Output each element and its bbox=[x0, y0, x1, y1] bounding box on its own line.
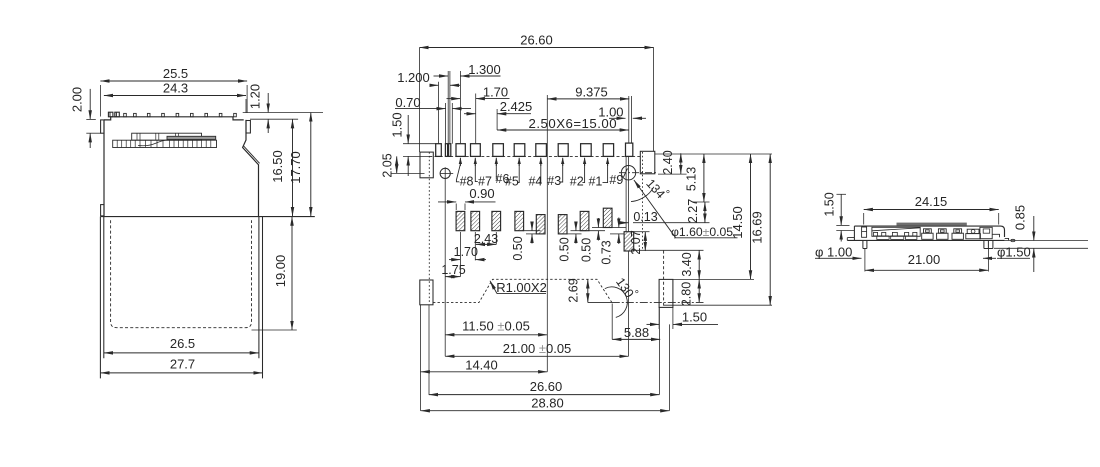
shell tab bottom-right bbox=[659, 279, 673, 307]
pin label #5 bbox=[518, 158, 520, 166]
pin row dashed line bbox=[429, 155, 642, 157]
svg-text:17.70: 17.70 bbox=[288, 151, 303, 184]
svg-text:14.40: 14.40 bbox=[465, 358, 498, 373]
svg-text:1.200: 1.200 bbox=[397, 70, 430, 85]
left contact block bbox=[872, 227, 920, 236]
svg-text:11.50 ±0.05: 11.50 ±0.05 bbox=[462, 319, 530, 334]
svg-text:2.69: 2.69 bbox=[567, 278, 581, 302]
card edge protruding bbox=[897, 223, 967, 226]
svg-text:1.50: 1.50 bbox=[682, 310, 707, 325]
dim 1.70 bbox=[447, 98, 461, 100]
left mounting tab lower bbox=[101, 205, 104, 216]
left leg bbox=[863, 240, 867, 248]
svg-text:#4: #4 bbox=[528, 174, 542, 188]
svg-text:°: ° bbox=[666, 189, 670, 201]
left view: connector with card, side elevation bbox=[70, 66, 324, 378]
svg-text:#9: #9 bbox=[609, 173, 623, 187]
dim 17.70 bbox=[310, 113, 312, 217]
svg-text:1.70: 1.70 bbox=[483, 85, 508, 100]
svg-text:0.90: 0.90 bbox=[469, 186, 494, 201]
svg-text:1.70: 1.70 bbox=[454, 245, 478, 259]
left mounting tab upper bbox=[101, 120, 104, 133]
svg-text:2.07: 2.07 bbox=[629, 230, 643, 254]
left hook detail bbox=[862, 227, 867, 237]
dim 2.27 bbox=[704, 202, 706, 223]
dim 24.3 bbox=[104, 95, 246, 97]
svg-text:24.3: 24.3 bbox=[163, 80, 188, 95]
dim 2.40 bbox=[680, 153, 682, 174]
dim 1.20 bbox=[267, 93, 269, 113]
dim 2.69 bbox=[587, 279, 589, 302]
shell tab bottom-left bbox=[420, 280, 433, 305]
svg-text:1.20: 1.20 bbox=[248, 84, 263, 109]
dim 5.88 bbox=[612, 338, 660, 340]
dim 0.50 a bbox=[524, 230, 541, 232]
svg-text:25.5: 25.5 bbox=[163, 66, 188, 81]
dim 1.70 pads bbox=[449, 259, 460, 261]
shell left end bbox=[853, 226, 855, 240]
middle contacts bbox=[922, 229, 981, 240]
svg-text:21.00 ±0.05: 21.00 ±0.05 bbox=[503, 341, 572, 356]
dim 1.300 bbox=[434, 75, 449, 77]
dim 2.05 bbox=[396, 156, 398, 173]
svg-text:24.15: 24.15 bbox=[915, 194, 948, 209]
svg-text:0.13: 0.13 bbox=[633, 210, 657, 224]
svg-text:5.13: 5.13 bbox=[685, 167, 699, 191]
dim phi 1.60 leader bbox=[634, 180, 676, 238]
dim 14.50 bbox=[750, 154, 752, 279]
dim 2.50X6=15.00 bbox=[497, 129, 629, 131]
bottom extension lines bbox=[419, 305, 421, 411]
dim 1.50 left bbox=[837, 193, 847, 195]
svg-text:0.73: 0.73 bbox=[600, 240, 614, 264]
dim 0.50 c bbox=[589, 230, 605, 232]
dim 2.80 bbox=[698, 279, 700, 302]
dim 2.00 bbox=[89, 89, 91, 120]
dim 16.69 bbox=[769, 154, 771, 305]
shell hidden edge right dotted bbox=[642, 152, 644, 250]
pin label #2 bbox=[584, 158, 586, 166]
svg-text:27.7: 27.7 bbox=[170, 356, 195, 371]
shell bottom line bbox=[847, 239, 1004, 241]
dim 1.50 tab width bbox=[647, 323, 660, 325]
dim 5.13 bbox=[703, 154, 705, 202]
svg-text:°: ° bbox=[635, 289, 639, 301]
dim 0.73 bbox=[612, 227, 626, 229]
svg-text:1.300: 1.300 bbox=[468, 62, 501, 77]
right mounting tab upper bbox=[246, 121, 250, 134]
dim 2.43 bbox=[476, 243, 497, 245]
bottom shell dashed outline with plateau bbox=[433, 279, 612, 302]
svg-text:#2: #2 bbox=[570, 174, 584, 188]
svg-text:0.50: 0.50 bbox=[558, 237, 572, 261]
right leg bbox=[984, 240, 993, 248]
dim 134 degrees with arc bbox=[631, 187, 654, 202]
svg-text:26.60: 26.60 bbox=[530, 379, 563, 394]
svg-text:1.50: 1.50 bbox=[390, 112, 405, 137]
svg-text:0.85: 0.85 bbox=[1013, 205, 1028, 230]
shell hidden edge left dotted bbox=[428, 152, 430, 303]
svg-text:2.40: 2.40 bbox=[661, 150, 675, 174]
svg-text:21.00: 21.00 bbox=[908, 252, 941, 267]
solder pins top row bbox=[436, 143, 633, 156]
svg-text:28.80: 28.80 bbox=[531, 396, 564, 411]
pin label #8 bbox=[459, 158, 461, 166]
pin label #4 bbox=[540, 158, 542, 166]
center line dash-dot right bbox=[612, 301, 704, 303]
svg-text:2.80: 2.80 bbox=[680, 282, 694, 306]
dim 16.50 bbox=[292, 119, 294, 216]
svg-text:#5: #5 bbox=[505, 174, 519, 188]
dim 0.85 bbox=[1005, 240, 1088, 242]
svg-text:26.60: 26.60 bbox=[520, 32, 553, 47]
svg-text:R1.00X2: R1.00X2 bbox=[496, 280, 547, 295]
dim 130 degrees with arc bbox=[605, 287, 628, 317]
svg-text:2.27: 2.27 bbox=[686, 199, 700, 223]
svg-text:2.425: 2.425 bbox=[500, 99, 533, 114]
svg-text:0.50: 0.50 bbox=[511, 236, 525, 260]
memory card dashed outline bbox=[111, 220, 252, 328]
right bent tab bbox=[1005, 238, 1009, 240]
svg-text:φ 1.00: φ 1.00 bbox=[815, 245, 852, 260]
svg-text:26.5: 26.5 bbox=[170, 336, 195, 351]
pad position arrows and pin number labels bbox=[456, 158, 627, 189]
dim 14.40 bbox=[421, 371, 548, 373]
dim 9.375 bbox=[547, 98, 629, 100]
bottom line of body bbox=[101, 216, 315, 218]
svg-text:2.50X6=15.00: 2.50X6=15.00 bbox=[529, 116, 618, 131]
svg-text:2.05: 2.05 bbox=[381, 153, 395, 177]
svg-text:16.69: 16.69 bbox=[750, 211, 765, 244]
top edge bumps bbox=[108, 112, 236, 117]
pin label #1 bbox=[607, 158, 609, 166]
dim 2.07 pad9 bbox=[644, 232, 646, 251]
dim 26.60 top bbox=[420, 47, 654, 49]
inner contact comb detail bbox=[113, 133, 217, 147]
dim 26.5 bbox=[104, 352, 259, 354]
dim 24.15 bbox=[864, 209, 999, 211]
dim 11.50 +-0.05 bbox=[445, 334, 547, 336]
dim R1.00X2 leader bbox=[497, 293, 546, 295]
pin label #6 bbox=[495, 158, 497, 166]
dim 28.80 bbox=[421, 410, 670, 412]
shell top line bbox=[854, 226, 1004, 237]
svg-text:9.375: 9.375 bbox=[575, 85, 608, 100]
svg-text:3.40: 3.40 bbox=[680, 252, 694, 276]
center view: PCB footprint top view bbox=[381, 32, 773, 410]
dim 25.5 bbox=[100, 80, 247, 82]
pin label #7 bbox=[474, 158, 476, 166]
dim 1.75 bbox=[445, 276, 460, 278]
pin tip circle bbox=[1011, 239, 1015, 241]
svg-text:0.70: 0.70 bbox=[395, 95, 420, 110]
svg-text:14.50: 14.50 bbox=[730, 206, 745, 239]
svg-text:φ1.50: φ1.50 bbox=[997, 245, 1031, 260]
shell tab top-right bbox=[640, 151, 655, 174]
mounting hole right #9 bbox=[621, 166, 635, 180]
dim 2.425 bbox=[464, 113, 476, 115]
right contact block bbox=[980, 227, 992, 238]
svg-text:#1: #1 bbox=[588, 174, 602, 188]
svg-text:#3: #3 bbox=[547, 174, 561, 188]
dim 1.50 pin length bbox=[407, 115, 409, 144]
svg-text:1.75: 1.75 bbox=[441, 263, 465, 277]
dim 0.50 b bbox=[567, 233, 582, 235]
svg-text:0.50: 0.50 bbox=[580, 238, 594, 262]
dim 19.00 bbox=[291, 217, 293, 330]
right view: connector side profile bbox=[815, 192, 1088, 272]
extension lines above pins bbox=[420, 48, 654, 372]
lower guide rails bbox=[99, 217, 101, 379]
svg-text:19.00: 19.00 bbox=[273, 255, 288, 288]
right edge with chamfer bbox=[243, 120, 259, 217]
right side reference ticks bbox=[655, 153, 772, 155]
mounting hole left bbox=[440, 168, 450, 178]
svg-text:2.00: 2.00 bbox=[70, 87, 85, 112]
dim 26.60 bottom bbox=[429, 394, 660, 396]
dim 21.00 +-0.05 bbox=[445, 355, 628, 357]
pin label #3 bbox=[562, 158, 564, 166]
dim 27.7 bbox=[100, 372, 262, 374]
svg-text:1.50: 1.50 bbox=[823, 192, 837, 216]
svg-text:16.50: 16.50 bbox=[270, 150, 285, 183]
solder pads hatched bbox=[456, 208, 634, 251]
shell tab top-left bbox=[420, 152, 433, 178]
dim 3.40 bbox=[698, 250, 700, 279]
dim 0.90 pad width bbox=[438, 201, 456, 203]
body outline left view bbox=[104, 117, 244, 120]
svg-text:5.88: 5.88 bbox=[624, 325, 649, 340]
svg-text:φ1.60±0.05: φ1.60±0.05 bbox=[671, 225, 733, 239]
